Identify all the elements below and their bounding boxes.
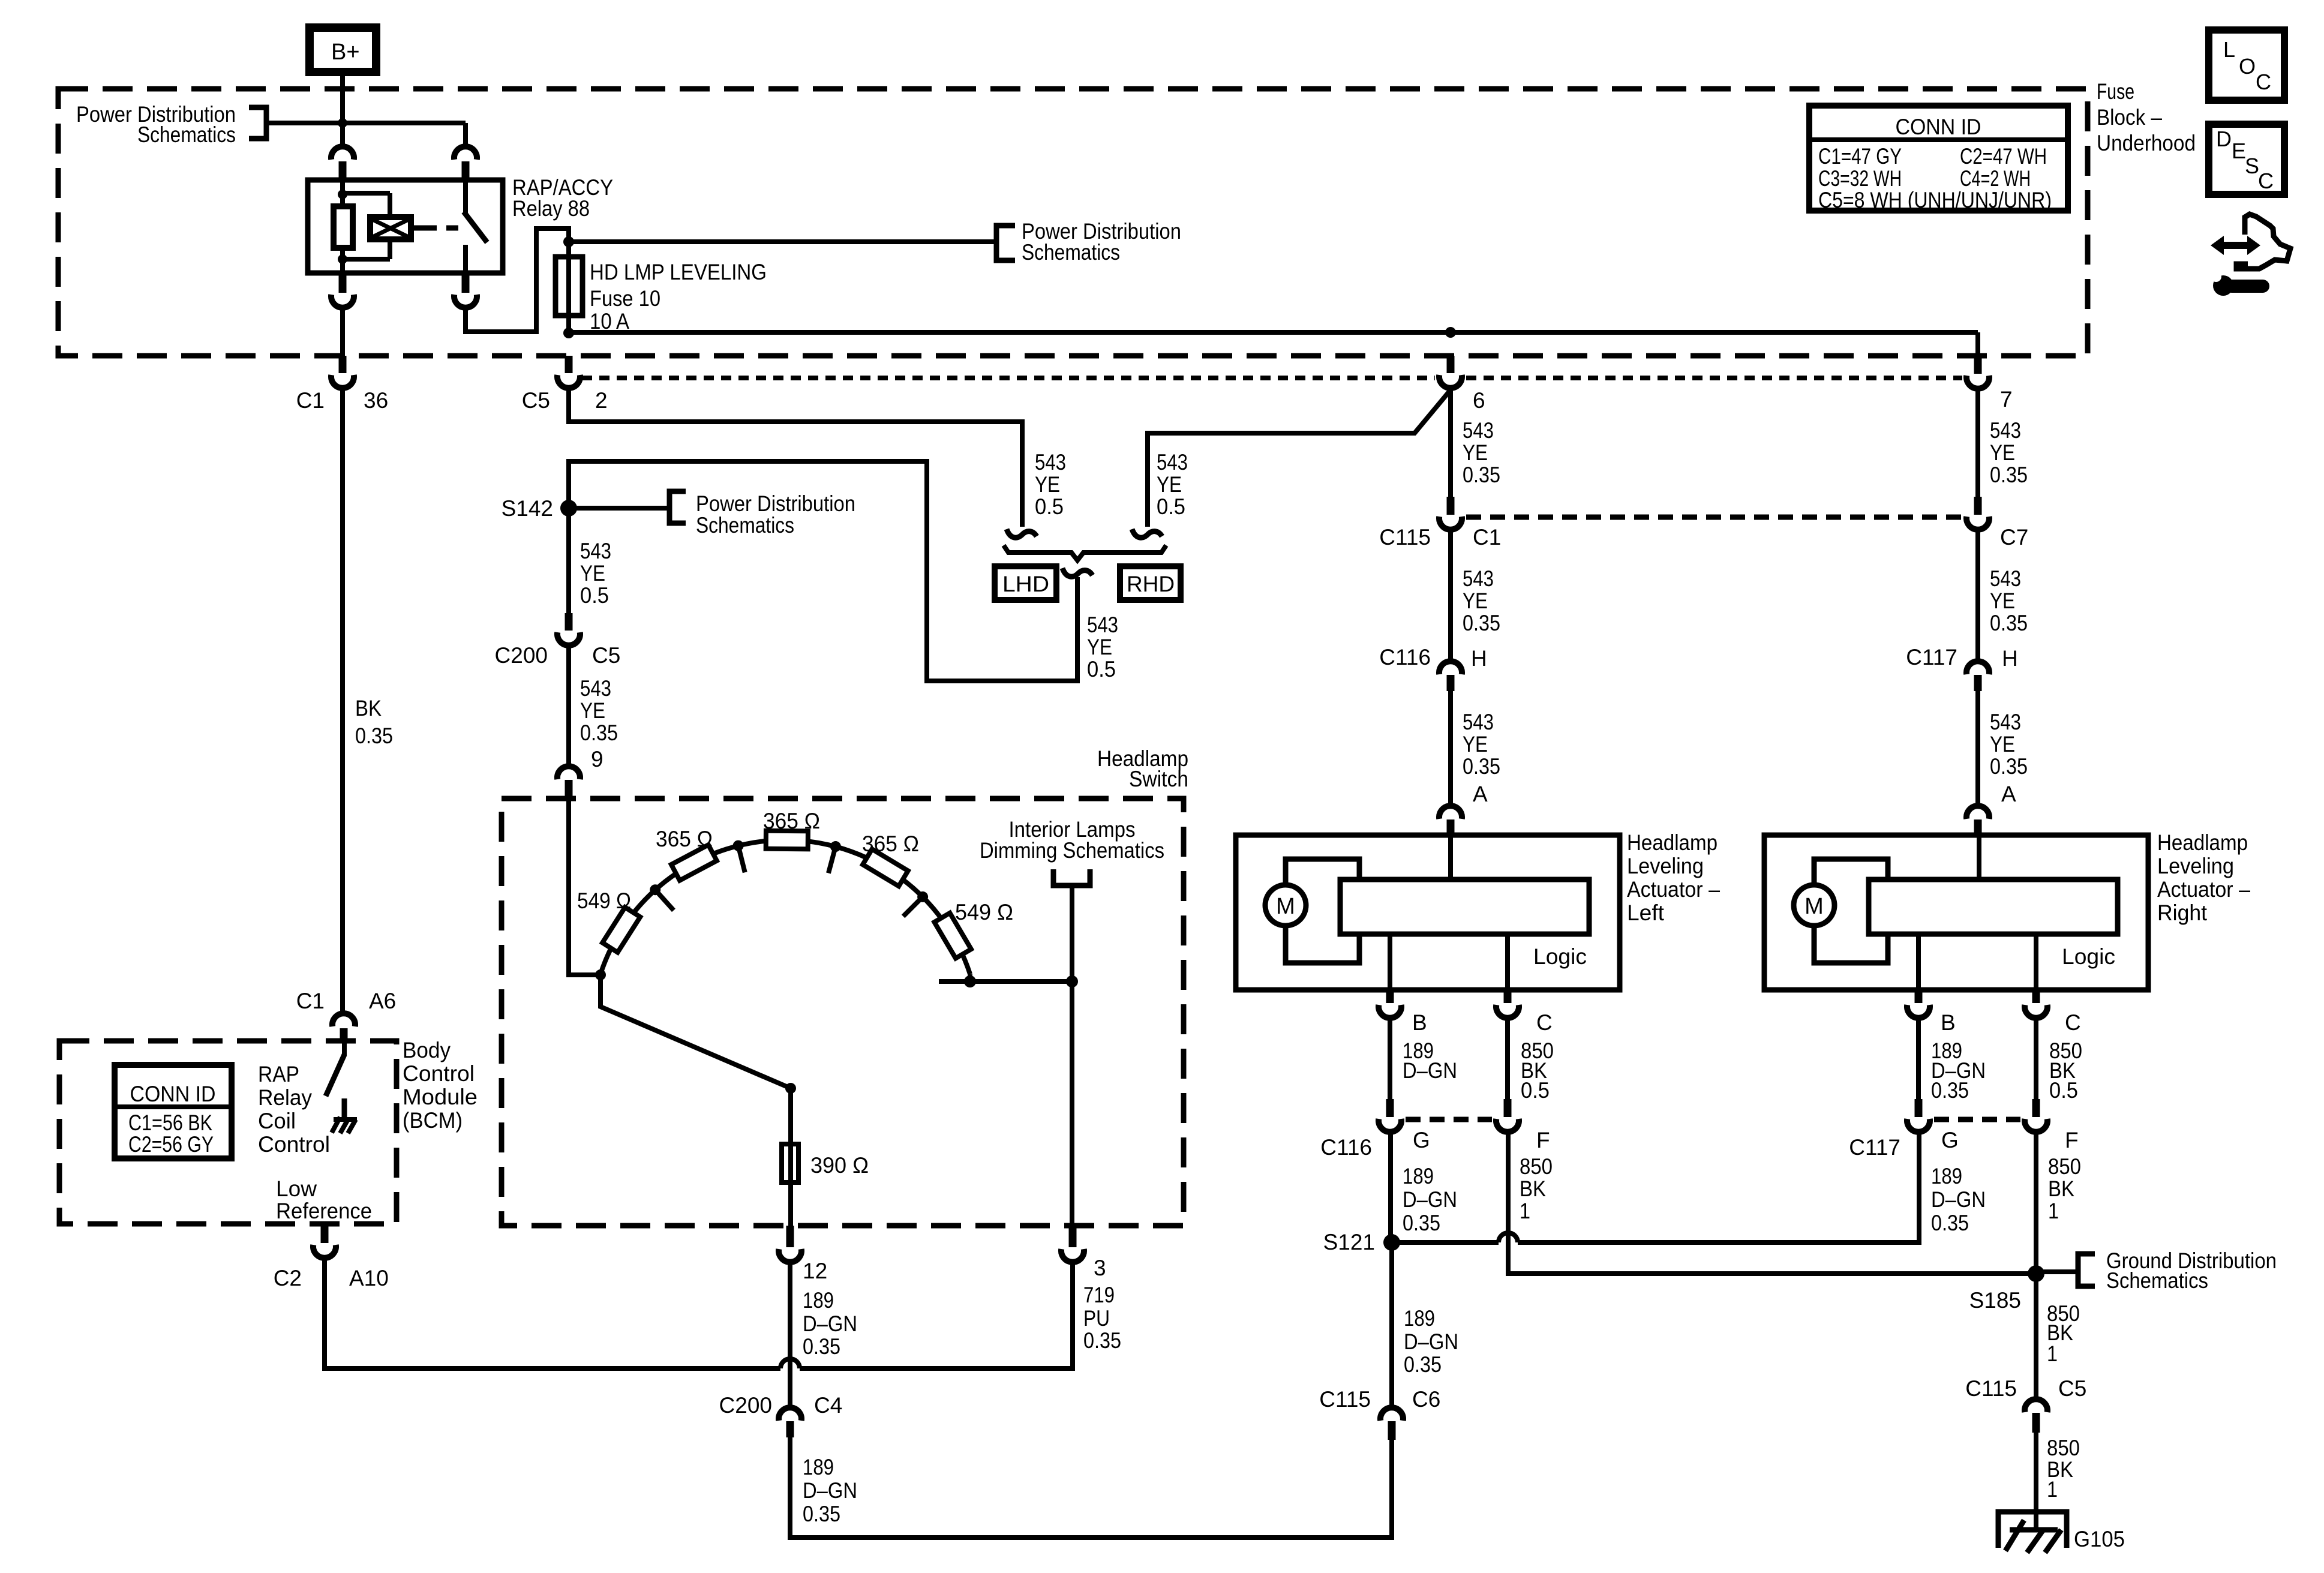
label 543 YE 0.35 (C115-C1) — [1463, 566, 1500, 635]
svg-text:M: M — [1804, 894, 1824, 919]
svg-text:CONN ID: CONN ID — [1896, 115, 1981, 139]
label B (left) — [1412, 1010, 1427, 1035]
svg-text:0.35: 0.35 — [1931, 1078, 1969, 1103]
label C1 (C115) — [1473, 525, 1501, 550]
svg-text:189: 189 — [1404, 1306, 1435, 1331]
resistor 549 ohm right — [935, 913, 971, 959]
svg-text:C2=56 GY: C2=56 GY — [128, 1132, 214, 1157]
label A10 — [349, 1266, 389, 1290]
svg-text:1: 1 — [1520, 1199, 1530, 1223]
relay coil wire and top junction — [338, 180, 390, 217]
label 543 YE 0.5 (LHD) — [1035, 450, 1066, 519]
svg-text:189: 189 — [1931, 1164, 1962, 1188]
label 543 YE 0.5 (RHD) — [1157, 450, 1188, 519]
svg-text:850: 850 — [1520, 1154, 1553, 1179]
wire S142 to bracket — [569, 506, 668, 511]
rotary tap 4 dot and wiper tick — [903, 891, 929, 917]
dotted connector line (fuse block C5 row) — [582, 376, 1962, 380]
svg-text:S121: S121 — [1323, 1230, 1375, 1254]
label C4 — [814, 1393, 842, 1418]
relay switch blade — [464, 180, 487, 273]
label 3 — [1094, 1256, 1106, 1280]
svg-text:(BCM): (BCM) — [403, 1108, 463, 1133]
svg-text:YE: YE — [1035, 472, 1060, 497]
tilde RHD wire option — [1132, 529, 1162, 538]
dashed link G to F (right) — [1934, 1117, 2020, 1122]
label 6 — [1473, 388, 1485, 413]
svg-text:543: 543 — [580, 676, 611, 701]
label C116 — [1320, 1135, 1372, 1160]
wire relay left pin down — [340, 308, 345, 356]
svg-text:Underhood: Underhood — [2097, 131, 2196, 155]
svg-text:0.35: 0.35 — [355, 724, 393, 748]
svg-text:C116: C116 — [1379, 645, 1431, 670]
svg-text:Headlamp: Headlamp — [1627, 830, 1718, 855]
svg-text:850: 850 — [2048, 1154, 2081, 1179]
svg-text:Module: Module — [403, 1085, 478, 1109]
label 850 BK 1 (right) — [2048, 1154, 2081, 1223]
label 189 D-GN (right) — [1931, 1038, 1986, 1103]
label 549 ohm left — [577, 888, 631, 913]
power symbol B+ box — [310, 28, 376, 72]
wire conn6 to RHD branch — [1148, 390, 1451, 527]
label C1 (BCM) — [296, 989, 325, 1013]
svg-text:O: O — [2239, 54, 2256, 79]
label C115 (C6) — [1319, 1387, 1371, 1412]
label Headlamp Leveling Actuator Right — [2157, 830, 2250, 925]
svg-text:0.35: 0.35 — [1463, 754, 1500, 779]
junction dot fuse bottom — [563, 328, 574, 338]
wire S142 down — [566, 508, 571, 613]
icon wrench — [2211, 269, 2263, 296]
label Power Distribution Schematics (left) — [76, 102, 236, 147]
wire pin7 down to C7 — [1975, 389, 1980, 497]
connector C1 A6 — [332, 1013, 355, 1041]
dashed link C115-C1 to C7 — [1466, 515, 1962, 520]
svg-text:189: 189 — [803, 1288, 834, 1313]
svg-text:C1: C1 — [1473, 525, 1501, 550]
connector C200 C5 — [557, 613, 580, 646]
svg-text:D–GN: D–GN — [1931, 1187, 1986, 1212]
label Power Distribution Schematics (mid) — [1022, 219, 1181, 265]
label F (left) — [1536, 1128, 1550, 1152]
wire S121 continue to right G — [1518, 1132, 1919, 1242]
svg-text:G: G — [1413, 1128, 1430, 1152]
bracket Interior Lamps Dimming — [1053, 869, 1090, 885]
label Power Distribution Schematics (S142) — [696, 491, 855, 538]
motor M circle (right) — [1794, 885, 1834, 926]
svg-text:C1=56 BK: C1=56 BK — [128, 1110, 212, 1135]
svg-text:C5: C5 — [592, 643, 620, 668]
svg-text:C1=47 GY: C1=47 GY — [1818, 144, 1902, 169]
svg-text:C115: C115 — [1965, 1376, 2017, 1401]
resistor relay internal — [334, 206, 353, 248]
svg-text:C2: C2 — [274, 1266, 302, 1290]
label C1 — [296, 388, 325, 413]
svg-text:CONN ID: CONN ID — [130, 1082, 216, 1106]
resistor 549 ohm left — [602, 907, 640, 952]
svg-text:BK: BK — [355, 696, 382, 721]
svg-text:543: 543 — [1990, 418, 2021, 443]
connector C1 36 — [331, 356, 354, 388]
wire pin 9 into switch — [569, 798, 600, 975]
wire arc left to 390 — [600, 975, 791, 1088]
brace wire selection — [1004, 545, 1166, 560]
svg-text:Control: Control — [258, 1132, 330, 1157]
svg-text:C5: C5 — [522, 388, 550, 413]
connector C7 — [1966, 497, 1989, 530]
label Ground Distribution Schematics — [2106, 1248, 2277, 1293]
svg-text:2: 2 — [595, 388, 608, 413]
svg-text:543: 543 — [1087, 613, 1118, 637]
svg-text:D–GN: D–GN — [1403, 1187, 1457, 1212]
label F (right) — [2065, 1128, 2079, 1152]
wire relay switch out to fuse — [466, 229, 569, 332]
svg-text:A10: A10 — [349, 1266, 389, 1290]
BCM internal switch — [326, 1041, 344, 1096]
wire pin C (right) — [2034, 934, 2038, 990]
svg-text:D–GN: D–GN — [1403, 1058, 1457, 1083]
wiper output wire — [939, 979, 1072, 984]
wire pin C (left) — [1505, 934, 1510, 990]
svg-text:B+: B+ — [331, 40, 360, 65]
label B (right) — [1941, 1010, 1956, 1035]
label RAP Relay Coil Control — [258, 1062, 330, 1157]
svg-text:Block –: Block – — [2097, 105, 2162, 130]
svg-text:C1: C1 — [296, 989, 325, 1013]
svg-text:365 Ω: 365 Ω — [656, 827, 713, 851]
svg-text:YE: YE — [580, 698, 605, 723]
label S142 — [502, 496, 553, 521]
connector A (left actuator) — [1439, 806, 1462, 835]
label C200 (C4) — [719, 1393, 772, 1418]
conn id table (fuse block) — [1809, 106, 2068, 212]
svg-text:543: 543 — [1463, 710, 1494, 734]
BCM internal ground — [332, 1098, 357, 1133]
svg-text:YE: YE — [1087, 635, 1112, 659]
svg-text:0.5: 0.5 — [580, 583, 609, 608]
svg-text:C4=2 WH: C4=2 WH — [1960, 166, 2031, 191]
label H (C116) — [1471, 646, 1487, 671]
tilde selected wire — [1062, 568, 1092, 577]
headlamp leveling actuator box (right) — [1764, 835, 2148, 990]
motor wiring loop (right) — [1814, 859, 1888, 963]
wire C117-H to actuator A — [1975, 691, 1980, 804]
svg-text:543: 543 — [1157, 450, 1188, 475]
label C115 (C1) — [1379, 525, 1431, 550]
svg-text:G105: G105 — [2074, 1527, 2125, 1551]
svg-text:Schematics: Schematics — [1022, 240, 1120, 265]
svg-text:189: 189 — [1403, 1164, 1434, 1188]
svg-text:543: 543 — [1990, 710, 2021, 734]
fuse block underhood dashed box — [58, 89, 2088, 356]
svg-text:LHD: LHD — [1002, 572, 1049, 596]
wire S121 to right G with hop — [1392, 1233, 1518, 1242]
label 9 — [591, 747, 603, 772]
svg-text:M: M — [1276, 894, 1295, 919]
label 543 YE 0.35 (C117-H) — [1990, 710, 2028, 779]
svg-text:0.35: 0.35 — [1404, 1352, 1442, 1377]
label 189 D-GN 0.35 (right) — [1931, 1164, 1986, 1235]
svg-text:YE: YE — [1157, 472, 1182, 497]
svg-text:YE: YE — [1990, 589, 2015, 613]
wire bus corner down to pin 7 — [1975, 332, 1980, 356]
svg-text:C200: C200 — [719, 1393, 772, 1418]
svg-text:Reference: Reference — [276, 1199, 372, 1223]
label 365 ohm 1 — [656, 827, 713, 851]
resistor 365 ohm 3 — [863, 849, 908, 886]
relay RAP/ACCY box — [308, 180, 503, 273]
svg-text:C3=32 WH: C3=32 WH — [1818, 166, 1902, 191]
svg-text:Relay: Relay — [258, 1085, 312, 1110]
svg-text:A: A — [1473, 782, 1488, 806]
dashed link G to F (left) — [1406, 1117, 1492, 1122]
label 12 — [803, 1259, 827, 1283]
logic box (left) — [1340, 879, 1589, 934]
connector pin C (right) — [2025, 990, 2047, 1018]
label G105 — [2074, 1527, 2125, 1551]
svg-text:C115: C115 — [1319, 1387, 1371, 1412]
wire C200-C5 to switch pin 9 — [566, 646, 571, 766]
connector pin C (left) — [1496, 990, 1519, 1018]
wire pin B (right) — [1916, 934, 1921, 990]
svg-text:C: C — [2258, 169, 2274, 193]
label Low Reference — [276, 1176, 372, 1223]
junction dot 390 top — [785, 1083, 796, 1094]
connector 12 (switch) — [779, 1226, 801, 1262]
label C5 (C200) — [592, 643, 620, 668]
connector 7 — [1966, 356, 1989, 389]
motor M circle (left) — [1265, 885, 1306, 926]
svg-text:D–GN: D–GN — [803, 1311, 857, 1336]
svg-text:Leveling: Leveling — [1627, 854, 1704, 878]
label A6 — [369, 989, 396, 1013]
BCM dashed box — [59, 1041, 397, 1224]
label Headlamp Switch — [1097, 746, 1188, 791]
LOC box — [2209, 30, 2284, 100]
svg-text:0.5: 0.5 — [1157, 494, 1185, 519]
svg-text:Fuse 10: Fuse 10 — [590, 286, 660, 311]
wire selected to S142 — [569, 461, 1077, 681]
wire S185 to C115-C5 — [2034, 1274, 2038, 1400]
svg-text:0.5: 0.5 — [1035, 494, 1064, 519]
label S121 — [1323, 1230, 1375, 1254]
svg-text:B: B — [1941, 1010, 1956, 1035]
label 543 YE 0.5 (selected) — [1087, 613, 1118, 682]
svg-text:0.35: 0.35 — [1990, 611, 2028, 635]
svg-text:C116: C116 — [1320, 1135, 1372, 1160]
connector C115 C6 — [1380, 1407, 1403, 1440]
svg-text:F: F — [1536, 1128, 1550, 1152]
resistor 365 ohm 1 — [671, 845, 717, 880]
wire B to G (right) — [1916, 1018, 1921, 1099]
fuse HD LMP LEVELING — [556, 257, 582, 316]
svg-text:1: 1 — [2047, 1341, 2058, 1366]
wire down to relay pin 2 — [463, 123, 468, 146]
svg-text:C4: C4 — [814, 1393, 842, 1418]
wire interior lamps feed — [1070, 885, 1074, 1226]
connector pin B (right) — [1907, 990, 1930, 1018]
label Logic (right) — [2062, 944, 2115, 969]
label A (right) — [2001, 782, 2016, 806]
svg-text:Low: Low — [276, 1176, 317, 1201]
svg-text:Schematics: Schematics — [2106, 1268, 2208, 1293]
conn id table (BCM) — [115, 1065, 232, 1158]
svg-text:Dimming Schematics: Dimming Schematics — [980, 838, 1164, 863]
svg-text:C200: C200 — [495, 643, 548, 668]
wire to Power Distribution bracket (right) — [569, 239, 996, 244]
svg-text:C115: C115 — [1379, 525, 1431, 550]
label 850 BK 0.5 (left) — [1521, 1038, 1554, 1103]
svg-text:G: G — [1941, 1128, 1959, 1152]
svg-text:Coil: Coil — [258, 1109, 296, 1133]
svg-text:543: 543 — [1035, 450, 1066, 475]
svg-text:Control: Control — [403, 1061, 475, 1086]
wire C7 to C117-H — [1975, 530, 1980, 661]
wire 390 column — [788, 1088, 793, 1226]
wire B+ junction to relay coil cup — [340, 123, 345, 146]
connector 9 (switch) — [557, 766, 580, 798]
bracket Power Distribution Schematics (left) — [249, 107, 266, 139]
label 189 D-GN 0.35 (pin12) — [803, 1288, 857, 1359]
svg-text:9: 9 — [591, 747, 603, 772]
label Body Control Module BCM — [403, 1038, 478, 1133]
ground G105 symbol — [1998, 1512, 2067, 1553]
label 189 D-GN 0.35 (left) — [1403, 1164, 1457, 1235]
label G (right) — [1941, 1128, 1959, 1152]
svg-text:C117: C117 — [1906, 645, 1957, 670]
label 543 YE 0.5 (S142 down) — [580, 539, 611, 608]
rotary resistor arc — [600, 840, 970, 974]
connector relay pin 30 out (cup) — [331, 273, 354, 308]
svg-text:L: L — [2223, 37, 2235, 62]
bracket Power Distribution Schematics (mid) — [996, 226, 1015, 260]
svg-text:C2=47 WH: C2=47 WH — [1960, 144, 2047, 169]
label Interior Lamps Dimming Schematics — [980, 817, 1164, 863]
svg-text:1: 1 — [2047, 1477, 2058, 1502]
label C115 (C5) — [1965, 1376, 2017, 1401]
label 719 PU 0.35 — [1083, 1283, 1121, 1353]
junction dot arc left end — [595, 969, 606, 980]
svg-text:C: C — [2065, 1010, 2081, 1035]
label 543 YE 0.35 (C116-H) — [1463, 710, 1500, 779]
relay coil box with X — [370, 217, 421, 239]
label 850 BK 1 (left) — [1520, 1154, 1553, 1223]
svg-text:1: 1 — [2048, 1199, 2059, 1223]
svg-text:B: B — [1412, 1010, 1427, 1035]
svg-text:RAP: RAP — [258, 1062, 299, 1086]
svg-text:H: H — [2002, 646, 2018, 671]
svg-text:Actuator –: Actuator – — [1627, 877, 1720, 902]
svg-text:543: 543 — [1990, 566, 2021, 591]
svg-text:0.35: 0.35 — [803, 1502, 840, 1526]
svg-text:S: S — [2245, 154, 2259, 178]
svg-text:Headlamp: Headlamp — [2157, 830, 2248, 855]
label C116 (H) — [1379, 645, 1431, 670]
svg-text:0.35: 0.35 — [1931, 1211, 1969, 1235]
svg-text:36: 36 — [364, 388, 388, 413]
label 543 YE 0.35 (pin7) — [1990, 418, 2028, 487]
svg-text:6: 6 — [1473, 388, 1485, 413]
label Fuse Block - Underhood — [2097, 79, 2196, 155]
wire C to F (left) — [1505, 1018, 1510, 1099]
svg-text:7: 7 — [2000, 387, 2013, 412]
junction dot arc right end — [964, 974, 976, 987]
wire C to F (right) — [2034, 1018, 2038, 1099]
relay coil bottom junction — [338, 239, 390, 273]
junction splice S142 — [560, 500, 577, 517]
svg-text:0.35: 0.35 — [1463, 463, 1500, 487]
svg-text:0.35: 0.35 — [1990, 754, 2028, 779]
label S185 — [1969, 1288, 2021, 1313]
svg-text:BK: BK — [1520, 1176, 1546, 1201]
svg-text:0.35: 0.35 — [1083, 1328, 1121, 1353]
wire S185 to ground bracket — [2036, 1269, 2077, 1274]
svg-text:0.5: 0.5 — [1521, 1078, 1550, 1103]
connector pin B (left) — [1379, 990, 1401, 1018]
bracket Power Distribution Schematics (S142) — [669, 491, 686, 523]
label 365 ohm 2 — [763, 809, 820, 833]
connector G (left) — [1379, 1099, 1401, 1132]
junction dot at B+ feed — [338, 118, 347, 128]
label C (left) — [1536, 1010, 1553, 1035]
wire C116-H to actuator A — [1448, 691, 1453, 804]
wire S121 to C115-C6 — [1389, 1242, 1394, 1407]
label A (left) — [1473, 782, 1488, 806]
svg-text:E: E — [2232, 139, 2246, 163]
svg-text:YE: YE — [1463, 440, 1488, 465]
svg-text:12: 12 — [803, 1259, 827, 1283]
connector C115 C1 — [1439, 497, 1462, 530]
svg-text:549 Ω: 549 Ω — [955, 900, 1013, 924]
label C5 — [522, 388, 550, 413]
svg-text:Logic: Logic — [2062, 944, 2115, 969]
tilde LHD wire option — [1007, 529, 1037, 538]
svg-text:189: 189 — [803, 1455, 834, 1479]
wire A10 low reference — [325, 1258, 780, 1368]
svg-text:Power Distribution: Power Distribution — [696, 491, 855, 516]
label C117 (H) — [1906, 645, 1957, 670]
label RAP/ACCY Relay 88 — [512, 175, 613, 221]
label BK 0.35 — [355, 696, 393, 748]
svg-text:YE: YE — [1990, 440, 2015, 465]
svg-text:C: C — [2256, 70, 2271, 94]
icon car outline — [2236, 214, 2290, 269]
wire C115-C5 to G105 — [2034, 1433, 2038, 1531]
svg-text:HD LMP LEVELING: HD LMP LEVELING — [590, 260, 767, 284]
wire right F down to S185 — [2034, 1132, 2038, 1274]
connector A (right actuator) — [1966, 806, 1989, 834]
bracket Ground Distribution Schematics — [2078, 1254, 2095, 1286]
svg-text:RHD: RHD — [1127, 572, 1175, 596]
logic box (right) — [1869, 879, 2118, 934]
motor wiring loop (left) — [1286, 859, 1359, 963]
label H (C117) — [2002, 646, 2018, 671]
svg-text:A: A — [2001, 782, 2016, 806]
label C (right) — [2065, 1010, 2081, 1035]
label 189 D-GN 0.35 (bottom) — [803, 1455, 857, 1526]
wire bracket to relay pins — [267, 121, 466, 125]
svg-text:BK: BK — [2048, 1176, 2074, 1201]
wire B to G (left) — [1388, 1018, 1392, 1099]
svg-text:YE: YE — [580, 561, 605, 586]
label Logic (left) — [1533, 944, 1587, 969]
connector G (right) — [1907, 1099, 1930, 1132]
svg-text:365 Ω: 365 Ω — [862, 831, 919, 856]
connector C200 C4 — [779, 1407, 801, 1437]
svg-text:D–GN: D–GN — [803, 1478, 857, 1503]
svg-text:Right: Right — [2157, 900, 2208, 925]
